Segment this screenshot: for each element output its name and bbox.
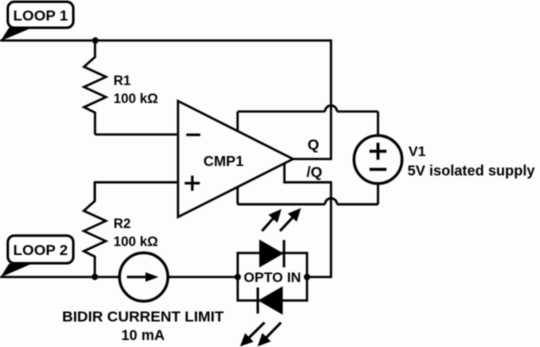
flag LOOP 2 box <box>8 236 74 264</box>
op-amp minus input symbol <box>186 134 200 137</box>
wire loop1 top <box>0 41 331 160</box>
wire R1 to inverting input <box>95 133 178 135</box>
svg-text:V1: V1 <box>409 143 426 159</box>
wire loop2 to current source <box>0 276 120 278</box>
svg-text:LOOP 2: LOOP 2 <box>13 242 68 259</box>
op-amp CMP1 triangle <box>178 101 293 217</box>
wire /Q output to opto <box>284 163 331 277</box>
wire noninverting input to R2 <box>95 182 178 201</box>
node loop1/R1 junction <box>92 37 98 43</box>
wire supply box bottom edge with hop <box>238 198 378 204</box>
resistor R1 <box>84 41 106 135</box>
svg-text:LOOP 1: LOOP 1 <box>13 7 68 24</box>
wire current source to opto <box>168 276 238 278</box>
node opto left terminal <box>235 274 241 280</box>
svg-text:10 mA: 10 mA <box>121 328 165 344</box>
light arrow lower 2 <box>265 323 281 340</box>
op-amp plus input symbol <box>185 176 200 191</box>
svg-text:Q: Q <box>308 137 320 154</box>
LED top diode <box>260 241 282 266</box>
light arrow upper 2 <box>280 216 294 231</box>
node opto right terminal <box>304 274 310 280</box>
svg-text:5V isolated supply: 5V isolated supply <box>408 164 535 180</box>
svg-text:/Q: /Q <box>307 164 323 181</box>
optocoupler OPTO IN box <box>238 253 307 301</box>
svg-text:CMP1: CMP1 <box>203 154 243 170</box>
node loop2/R2 junction <box>92 274 98 280</box>
light arrow lower 1 <box>248 323 265 340</box>
wire supply box right edge <box>377 112 379 205</box>
svg-text:100 kΩ: 100 kΩ <box>114 234 159 249</box>
wire supply box left edge <box>236 112 238 205</box>
svg-text:OPTO IN: OPTO IN <box>244 269 301 285</box>
flag LOOP 1 pointer <box>1 28 33 41</box>
svg-text:BIDIR CURRENT LIMIT: BIDIR CURRENT LIMIT <box>62 309 224 326</box>
LED bottom diode <box>260 288 282 314</box>
flag LOOP 2 pointer <box>1 264 33 278</box>
resistor R2 <box>84 182 106 276</box>
light arrow upper 1 <box>262 217 275 231</box>
wire supply box top edge with hop <box>238 106 378 112</box>
svg-text:100 kΩ: 100 kΩ <box>114 91 159 106</box>
voltage source V1 <box>354 136 402 184</box>
svg-text:R1: R1 <box>114 73 132 88</box>
svg-text:R2: R2 <box>114 216 131 231</box>
current source BIDIR <box>120 253 168 301</box>
flag LOOP 1 box <box>8 2 74 28</box>
